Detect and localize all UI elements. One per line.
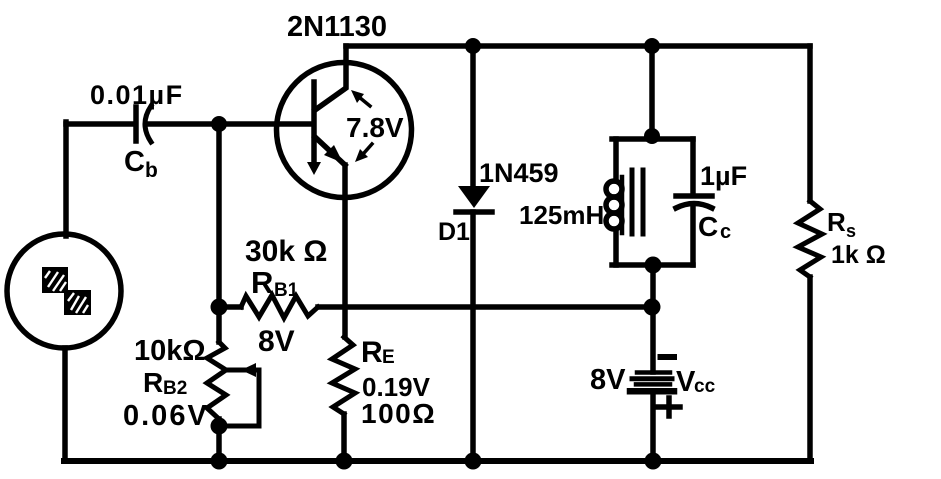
- svg-text:D1: D1: [438, 218, 470, 246]
- svg-text:1µF: 1µF: [700, 161, 747, 191]
- svg-text:c: c: [720, 221, 731, 243]
- svg-text:V: V: [676, 366, 696, 398]
- svg-text:B1: B1: [274, 280, 299, 301]
- svg-text:30k Ω: 30k Ω: [245, 235, 327, 268]
- svg-text:E: E: [382, 347, 395, 368]
- svg-text:R: R: [827, 207, 846, 237]
- svg-text:0.06V: 0.06V: [123, 400, 209, 432]
- svg-text:1N459: 1N459: [479, 158, 559, 188]
- svg-text:R: R: [143, 367, 163, 398]
- svg-text:cc: cc: [694, 376, 716, 397]
- svg-text:s: s: [846, 221, 856, 241]
- svg-text:C: C: [698, 211, 718, 242]
- svg-text:B2: B2: [163, 378, 187, 399]
- svg-text:1k Ω: 1k Ω: [831, 241, 886, 269]
- svg-text:10kΩ: 10kΩ: [134, 335, 206, 367]
- svg-text:R: R: [361, 336, 383, 369]
- svg-text:b: b: [145, 159, 158, 182]
- svg-text:125mH: 125mH: [519, 200, 604, 230]
- svg-text:C: C: [124, 146, 145, 178]
- svg-text:8V: 8V: [258, 325, 295, 358]
- svg-text:8V: 8V: [590, 364, 626, 396]
- svg-text:R: R: [251, 265, 273, 300]
- svg-text:0.01µF: 0.01µF: [90, 80, 184, 110]
- svg-text:2N1130: 2N1130: [287, 11, 387, 43]
- svg-text:7.8V: 7.8V: [346, 112, 404, 143]
- svg-text:100Ω: 100Ω: [361, 398, 436, 429]
